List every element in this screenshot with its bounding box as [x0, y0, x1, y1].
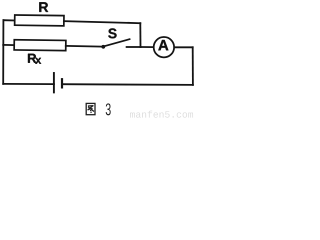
caption figure number 3: [106, 103, 111, 115]
battery short plate: [61, 79, 63, 87]
switch S blade: [104, 39, 129, 46]
wire bottom left: [3, 83, 54, 85]
wire left bus to Rx: [3, 44, 14, 46]
wire top-left to R: [3, 19, 15, 21]
wire right bus: [192, 47, 194, 85]
resistor R: [15, 15, 64, 26]
wire bottom right: [62, 83, 193, 86]
wire junction to ammeter: [141, 46, 154, 48]
wire left bus: [2, 20, 4, 84]
label Rx: [28, 54, 41, 64]
switch S contact dot: [101, 45, 105, 49]
resistor Rx: [14, 40, 66, 51]
switch right contact wire: [127, 46, 141, 48]
wire corner drop: [139, 23, 141, 47]
ammeter A1 circle: [154, 37, 174, 57]
label S: [108, 28, 116, 38]
wire ammeter to right bus: [175, 46, 193, 48]
label A of ammeter: [158, 40, 168, 50]
wire Rx to switch: [66, 45, 102, 48]
watermark manfen5.com: [130, 111, 193, 118]
label R: [39, 2, 48, 12]
battery long plate: [53, 73, 55, 92]
caption glyph: CJK character TU (figure): [86, 103, 95, 114]
wire R to corner: [64, 21, 140, 23]
